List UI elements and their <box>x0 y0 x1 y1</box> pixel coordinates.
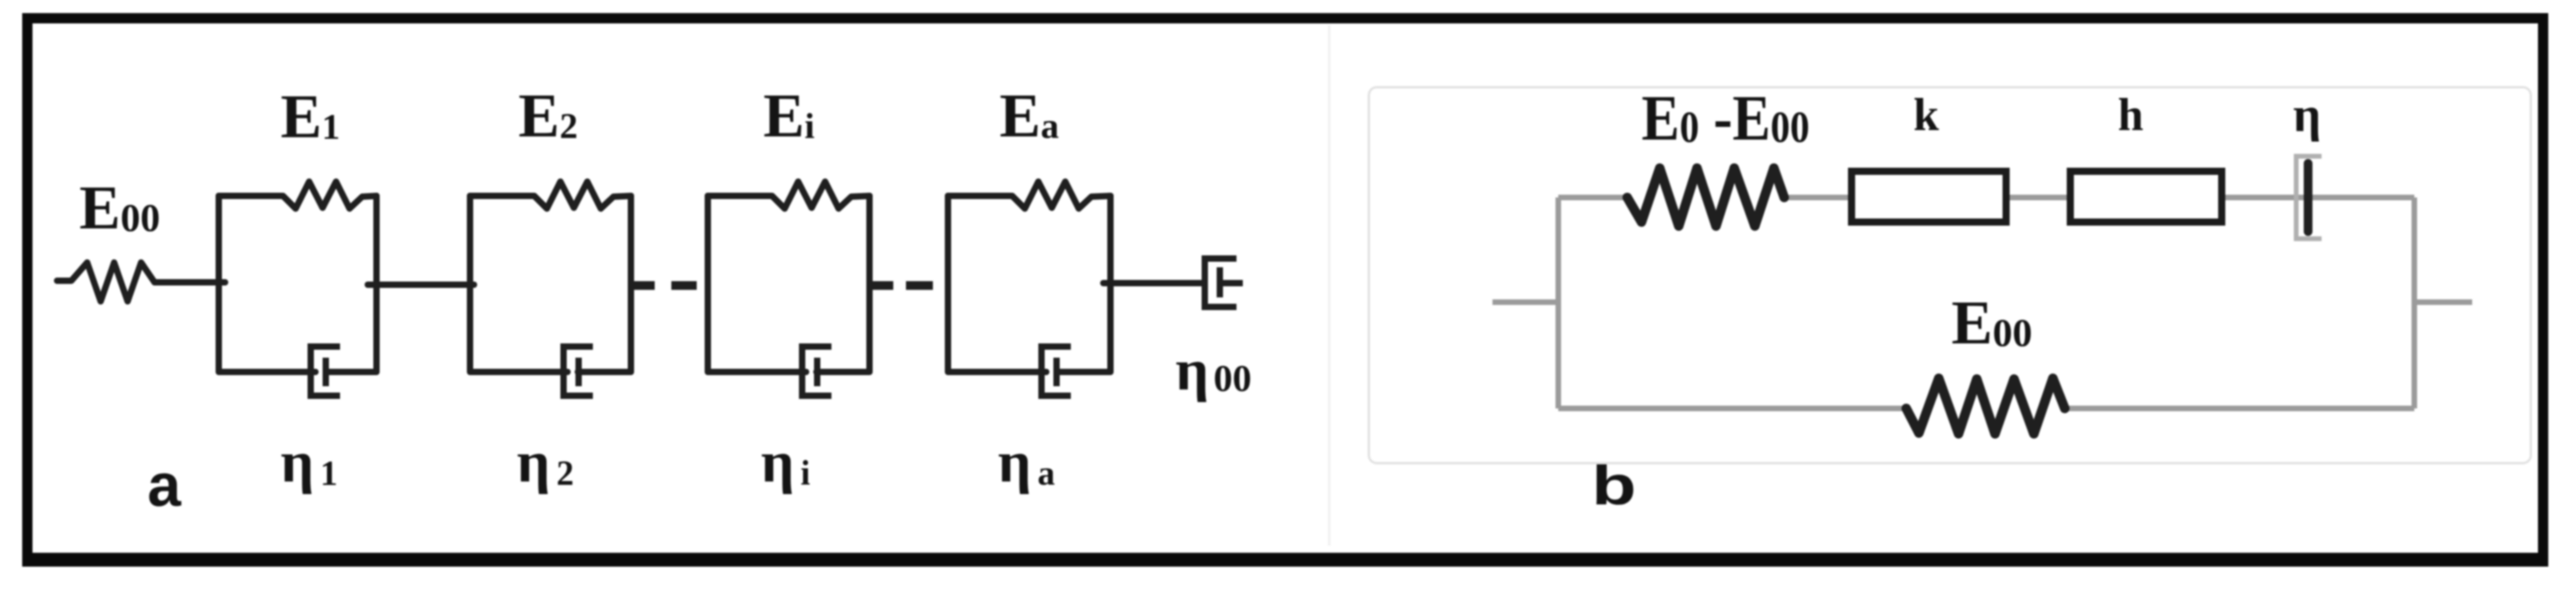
svg-text:b: b <box>1592 455 1636 517</box>
svg-text:h: h <box>2118 89 2143 140</box>
svg-text:a: a <box>147 452 182 519</box>
svg-text:k: k <box>1913 89 1940 140</box>
svg-text:η: η <box>2293 88 2321 142</box>
